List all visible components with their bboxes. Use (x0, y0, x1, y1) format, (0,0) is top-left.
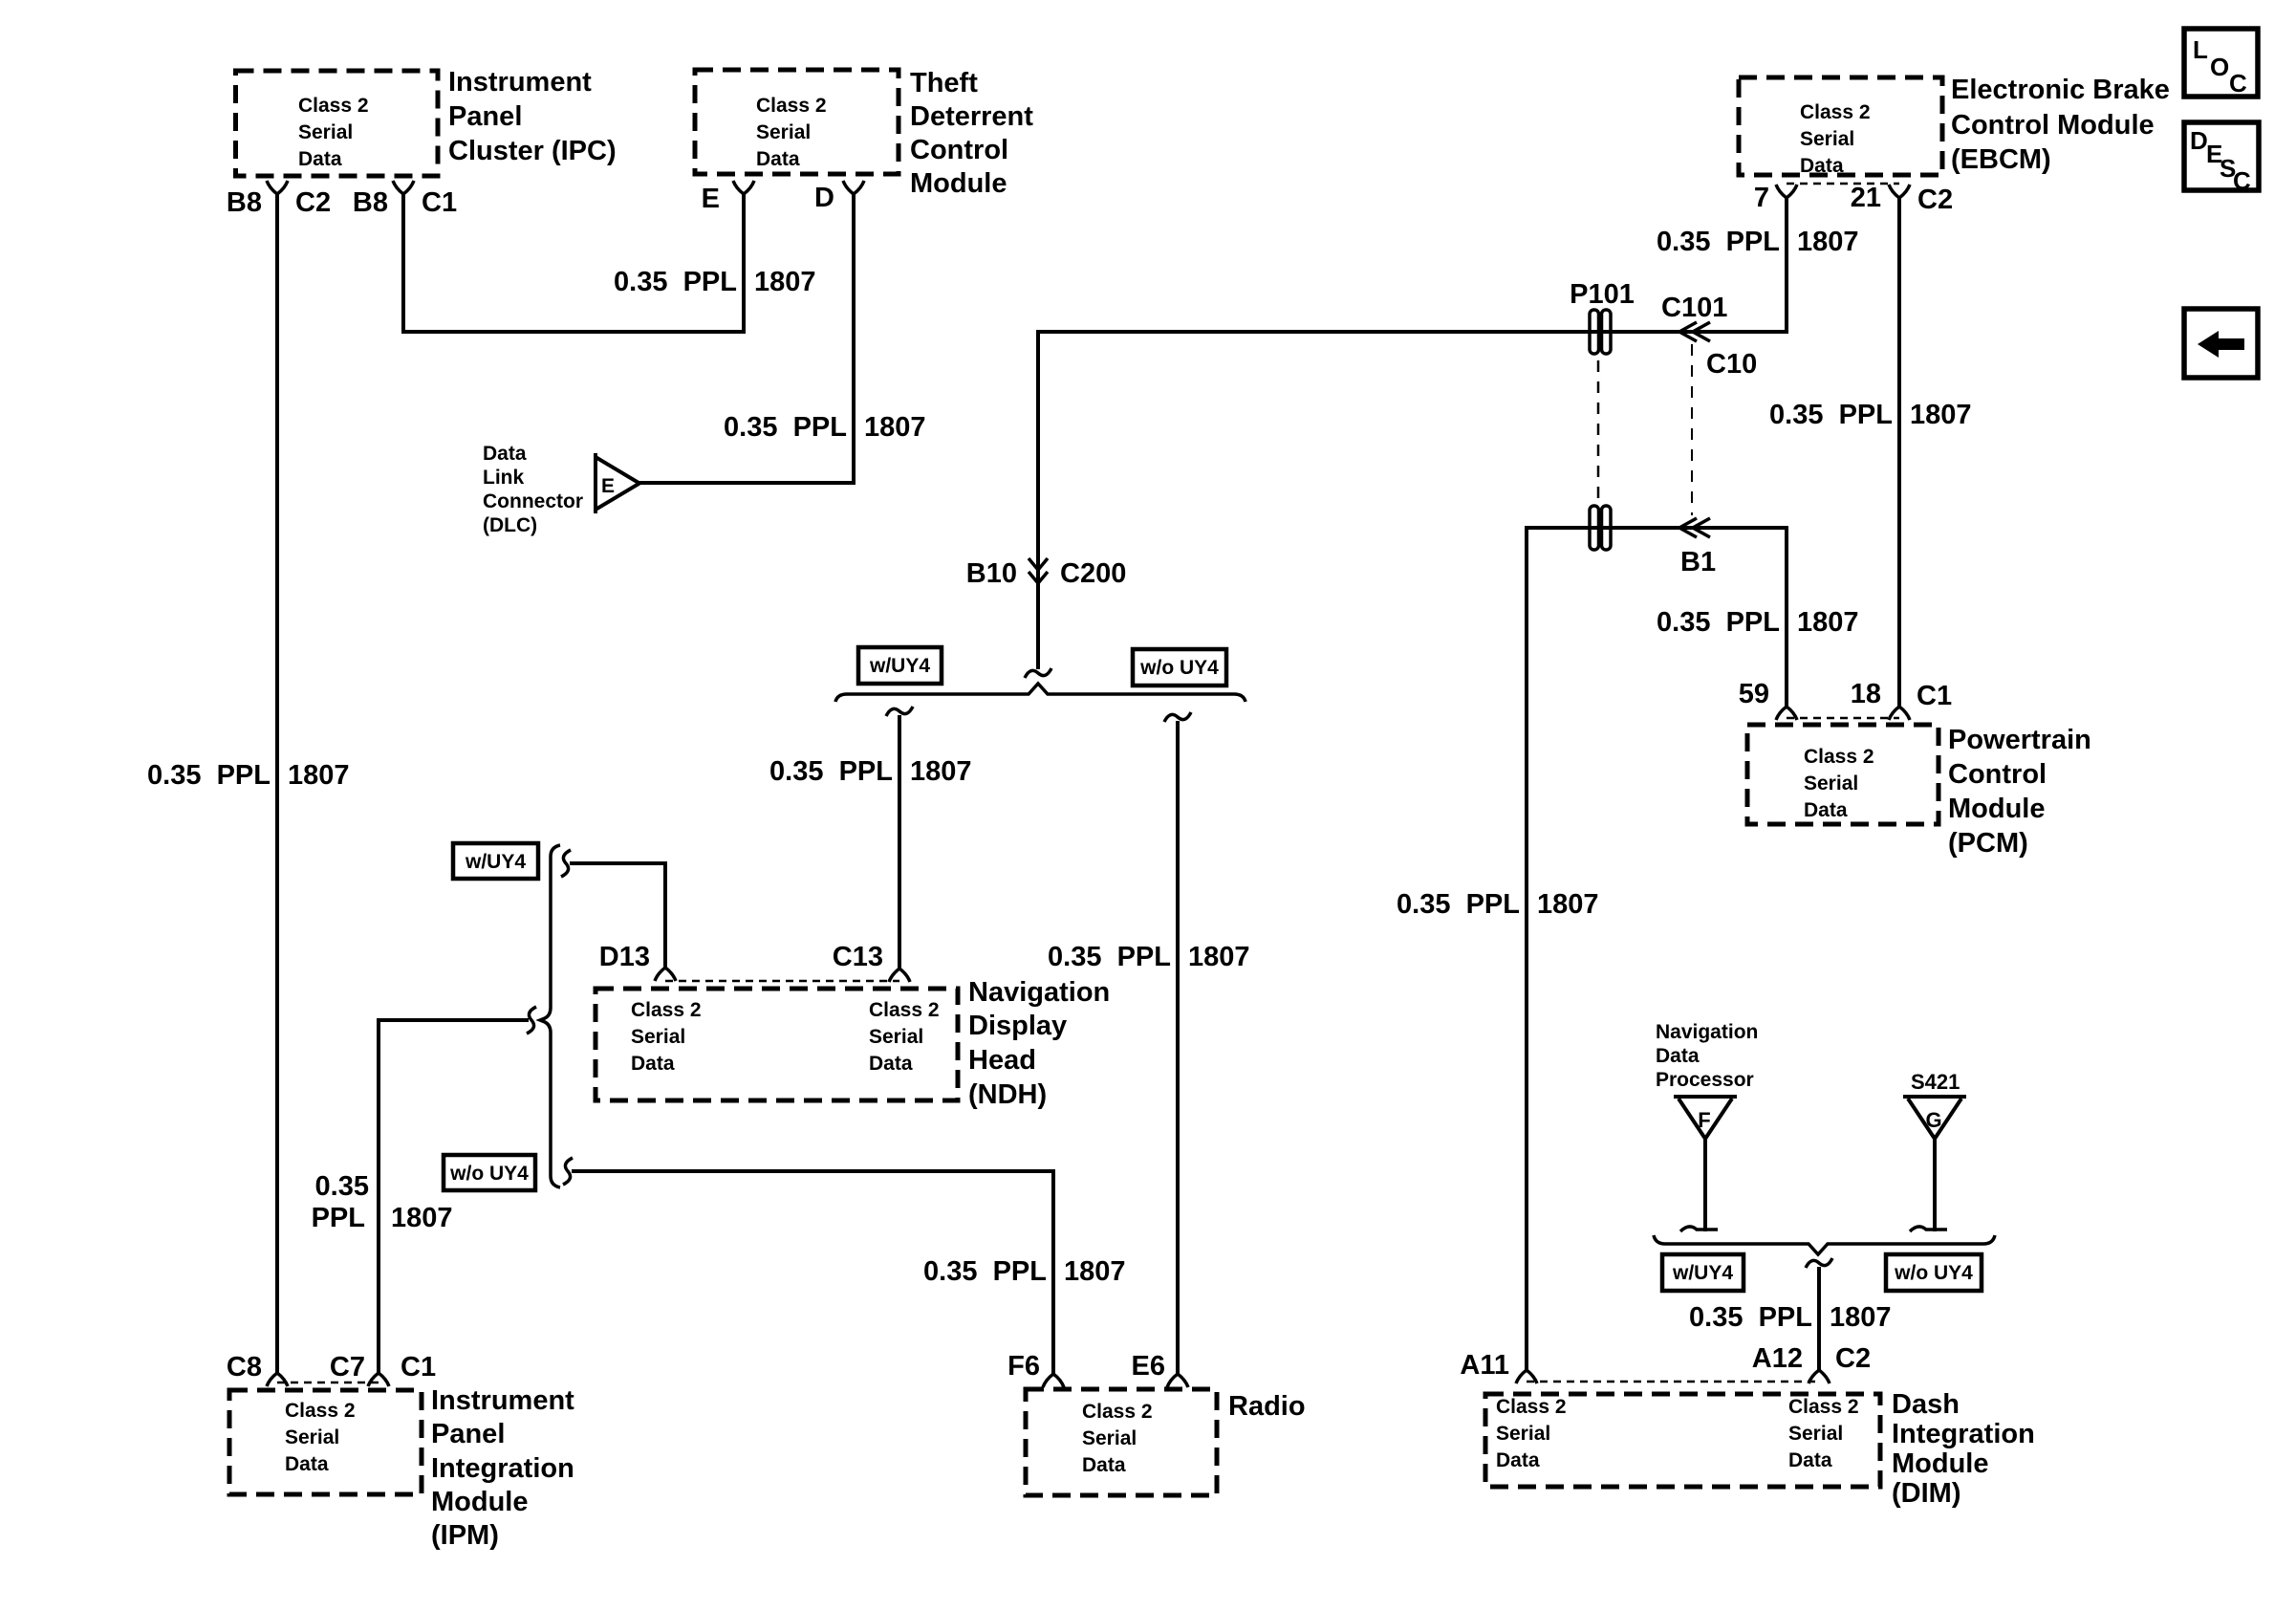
svg-text:F: F (1698, 1108, 1710, 1132)
pin D13 fork (NDH) (655, 968, 676, 981)
svg-text:Serial: Serial (285, 1426, 339, 1448)
break tilde top of w/UY4 branch (886, 707, 913, 716)
svg-text:1807: 1807 (1537, 889, 1599, 920)
svg-text:1807: 1807 (754, 267, 816, 297)
svg-text:Class 2: Class 2 (1496, 1396, 1567, 1418)
svg-text:Serial: Serial (1788, 1423, 1843, 1445)
wire triangle F stem (1703, 1139, 1707, 1231)
svg-text:Link: Link (483, 467, 524, 489)
svg-text:G: G (1925, 1108, 1941, 1132)
svg-text:PPL: PPL (312, 1203, 365, 1233)
svg-text:7: 7 (1754, 183, 1769, 213)
wire EBCM pin 21 C2 to PCM pin 18 C1 (1897, 198, 1901, 707)
break tilde top of w/o UY4 branch (1164, 712, 1191, 722)
svg-text:0.35 PPL: 0.35 PPL (1048, 942, 1171, 972)
svg-text:Class 2: Class 2 (1082, 1401, 1153, 1423)
svg-text:21: 21 (1851, 183, 1881, 213)
svg-text:18: 18 (1851, 679, 1881, 709)
svg-text:w/UY4: w/UY4 (869, 655, 930, 677)
svg-text:0.35 PPL: 0.35 PPL (147, 760, 271, 791)
svg-text:Class 2: Class 2 (1800, 101, 1871, 123)
pin C13 fork (NDH) (889, 969, 910, 982)
svg-text:B8: B8 (227, 187, 262, 218)
wire IPM C7 up to UY4 split brace (379, 1020, 529, 1373)
svg-text:Data: Data (483, 443, 527, 465)
svg-text:Navigation: Navigation (1656, 1021, 1758, 1043)
svg-text:0.35 PPL: 0.35 PPL (1769, 400, 1893, 430)
svg-text:Class 2: Class 2 (1788, 1396, 1859, 1418)
svg-text:Data: Data (298, 148, 342, 170)
EBCM connector edge dashed line (1787, 183, 1899, 185)
svg-text:C8: C8 (227, 1352, 262, 1382)
svg-text:0.35 PPL: 0.35 PPL (1657, 227, 1780, 257)
option box w/UY4 (left split) (453, 843, 538, 879)
pin A11 fork (DIM) (1516, 1370, 1537, 1383)
svg-text:B10: B10 (966, 558, 1017, 589)
pin E6 fork (Radio) (1167, 1374, 1188, 1387)
pin 7 fork (EBCM) (1776, 185, 1797, 198)
svg-text:D13: D13 (599, 942, 650, 972)
svg-text:w/UY4: w/UY4 (1672, 1262, 1733, 1284)
wire triangle G stem (1933, 1139, 1937, 1231)
svg-text:C: C (2229, 69, 2247, 98)
svg-text:A12: A12 (1752, 1343, 1803, 1374)
svg-text:C2: C2 (1835, 1343, 1871, 1374)
svg-text:w/UY4: w/UY4 (465, 851, 526, 873)
Radio internal label Class 2 Serial Data (1082, 1401, 1153, 1476)
pin B8 C1 fork (IPC) (393, 181, 414, 194)
svg-text:1807: 1807 (864, 412, 926, 443)
svg-text:Panel: Panel (448, 101, 522, 132)
svg-text:1807: 1807 (1910, 400, 1972, 430)
module Theft Deterrent Control Module box (695, 70, 899, 174)
wire w/o UY4 branch to Radio E6 (1176, 721, 1180, 1374)
svg-text:Deterrent: Deterrent (910, 101, 1033, 132)
pin C7 fork (IPM) (368, 1373, 389, 1386)
svg-text:S421: S421 (1911, 1070, 1960, 1094)
svg-text:1807: 1807 (391, 1203, 453, 1233)
wire w/o UY4 branch to Radio F6 (572, 1171, 1053, 1374)
splice break B10 double chevron down (1029, 558, 1048, 583)
module IPM box (Instrument Panel Integration Module) (229, 1390, 422, 1494)
svg-text:Class 2: Class 2 (631, 999, 702, 1021)
svg-text:Serial: Serial (1800, 128, 1854, 150)
pin E fork (Theft) (733, 181, 754, 194)
svg-text:P101: P101 (1570, 279, 1635, 310)
svg-text:C1: C1 (422, 187, 457, 218)
dashed pass-through C10 vertical (1691, 344, 1693, 515)
IPM module name (431, 1385, 574, 1551)
svg-text:Serial: Serial (631, 1026, 685, 1048)
svg-text:0.35 PPL: 0.35 PPL (724, 412, 847, 443)
DIM connector edge dashed line (1527, 1381, 1819, 1383)
svg-text:0.35 PPL: 0.35 PPL (1689, 1302, 1812, 1333)
svg-text:Data: Data (1788, 1449, 1832, 1471)
svg-text:w/o UY4: w/o UY4 (1894, 1262, 1973, 1284)
svg-text:1807: 1807 (910, 756, 972, 787)
svg-text:C: C (2233, 166, 2251, 195)
svg-text:Instrument: Instrument (431, 1385, 574, 1416)
svg-text:Data: Data (285, 1453, 329, 1475)
DLC connector triangle E (596, 457, 639, 510)
svg-text:Control Module: Control Module (1951, 110, 2155, 141)
svg-text:E: E (702, 184, 720, 214)
svg-text:Module: Module (1892, 1448, 1989, 1479)
svg-text:Dash: Dash (1892, 1389, 1960, 1420)
svg-text:B1: B1 (1680, 547, 1716, 577)
DIM internal label Class 2 Serial Data (left) (1496, 1396, 1567, 1471)
option box w/UY4 (C200 split) (858, 647, 942, 684)
EBCM module name (1951, 75, 2170, 175)
svg-text:Serial: Serial (298, 121, 353, 143)
NDH connector edge dashed line (665, 980, 899, 983)
pin D fork (Theft) (843, 181, 864, 194)
C200 split brace (835, 684, 1245, 702)
wire w/UY4 branch to NDH C13 (898, 715, 901, 969)
svg-text:(DLC): (DLC) (483, 514, 537, 536)
svg-text:Processor: Processor (1656, 1069, 1754, 1091)
svg-text:Radio: Radio (1228, 1391, 1306, 1422)
svg-text:0.35 PPL: 0.35 PPL (923, 1256, 1047, 1287)
break tilde end of IPM C7 wire (527, 1007, 536, 1034)
svg-text:0.35: 0.35 (315, 1171, 369, 1202)
svg-text:Class 2: Class 2 (285, 1400, 356, 1422)
svg-text:Class 2: Class 2 (1804, 746, 1874, 768)
inline connector B1 double chevron (1679, 518, 1710, 537)
dashed pass-through P101 vertical (1597, 360, 1600, 504)
svg-text:Data: Data (631, 1053, 675, 1075)
NDH module name (968, 977, 1110, 1110)
svg-text:Data: Data (1800, 155, 1844, 177)
svg-text:C1: C1 (1917, 681, 1952, 711)
legend LOC box (2184, 29, 2258, 98)
svg-text:Panel: Panel (431, 1419, 505, 1449)
svg-text:Serial: Serial (756, 121, 811, 143)
wire PCM pin 59 via B1 to DIM A11 (1527, 528, 1787, 1370)
wire Theft pin D to DLC (639, 194, 854, 483)
left UY4 split curly brace (540, 845, 560, 1187)
break tilde above C200 brace (1025, 668, 1051, 678)
svg-text:Electronic Brake: Electronic Brake (1951, 75, 2170, 105)
module IPC box (Instrument Panel Cluster) (236, 71, 439, 176)
svg-text:C2: C2 (1917, 185, 1953, 215)
PCM connector edge dashed line (1787, 717, 1899, 720)
svg-text:B8: B8 (353, 187, 388, 218)
Theft module name (910, 68, 1033, 199)
IPM connector edge dashed line (277, 1382, 379, 1384)
svg-text:Connector: Connector (483, 490, 583, 512)
svg-text:Module: Module (910, 168, 1007, 199)
foot at G stem (1910, 1227, 1947, 1231)
svg-text:0.35 PPL: 0.35 PPL (769, 756, 893, 787)
svg-text:D: D (2190, 126, 2208, 155)
svg-text:1807: 1807 (288, 760, 350, 791)
svg-text:Data: Data (1496, 1449, 1540, 1471)
svg-text:Data: Data (1804, 799, 1848, 821)
svg-text:Module: Module (431, 1487, 529, 1517)
break tilde below DIM brace (1806, 1258, 1832, 1268)
NDH internal label Class 2 Serial Data (right) (869, 999, 940, 1075)
pin C8 fork (IPM) (267, 1373, 288, 1386)
PCM internal label Class 2 Serial Data (1804, 746, 1874, 821)
svg-text:D: D (814, 183, 834, 213)
svg-text:Serial: Serial (1496, 1423, 1550, 1445)
wire DIM A12 drop (1817, 1267, 1821, 1370)
svg-text:Integration: Integration (431, 1453, 574, 1484)
DIM split brace (1654, 1235, 1995, 1254)
svg-text:1807: 1807 (1797, 607, 1859, 638)
svg-text:E: E (601, 475, 615, 497)
pin 59 fork (PCM) (1776, 707, 1797, 720)
splice S421 triangle G (1903, 1097, 1966, 1139)
svg-text:w/o UY4: w/o UY4 (1139, 657, 1219, 679)
svg-text:0.35 PPL: 0.35 PPL (614, 267, 737, 297)
svg-text:L: L (2193, 35, 2208, 64)
wire label 0.35 / PPL / 1807 (IPM C7) (312, 1171, 453, 1233)
svg-text:C200: C200 (1060, 558, 1126, 589)
foot at F stem (1680, 1227, 1718, 1231)
svg-text:(EBCM): (EBCM) (1951, 144, 2051, 175)
svg-text:C101: C101 (1661, 293, 1727, 323)
pin B8 C2 fork (IPC) (267, 181, 288, 194)
wire w/UY4 branch to NDH D13 (570, 863, 665, 968)
PCM module name (1948, 725, 2091, 859)
svg-text:1807: 1807 (1188, 942, 1250, 972)
svg-text:C2: C2 (295, 187, 331, 218)
module NDH box (Navigation Display Head) (596, 989, 958, 1100)
svg-text:Display: Display (968, 1011, 1067, 1041)
inline connector P101 grommet (upper) (1590, 310, 1611, 354)
svg-text:F6: F6 (1007, 1351, 1040, 1382)
svg-text:(NDH): (NDH) (968, 1079, 1047, 1110)
svg-text:1807: 1807 (1830, 1302, 1892, 1333)
svg-text:(DIM): (DIM) (1892, 1478, 1960, 1509)
pin 18 fork (PCM C1) (1889, 707, 1910, 720)
inline connector C101 double chevron (1679, 322, 1710, 341)
svg-text:A11: A11 (1460, 1350, 1509, 1381)
IPC internal label Class 2 Serial Data (298, 95, 369, 170)
break tilde start of w/UY4 branch wire (561, 850, 571, 877)
svg-text:E6: E6 (1132, 1351, 1165, 1382)
wire IPC C1-B8 to Theft pin E (403, 194, 744, 332)
svg-text:C1: C1 (401, 1352, 436, 1382)
svg-text:w/o UY4: w/o UY4 (449, 1163, 529, 1185)
DIM module name (1892, 1389, 2035, 1509)
svg-text:Data: Data (1082, 1454, 1126, 1476)
pin A12 fork (DIM C2) (1809, 1370, 1830, 1383)
svg-text:Integration: Integration (1892, 1419, 2035, 1449)
svg-text:Module: Module (1948, 794, 2046, 824)
svg-text:1807: 1807 (1797, 227, 1859, 257)
break tilde start of w/o UY4 branch wire (563, 1158, 573, 1185)
legend DESC box (2184, 122, 2259, 195)
IPM internal label Class 2 Serial Data (285, 1400, 356, 1475)
wire IPC C2-B8 to IPM C8 (long left vertical) (275, 194, 279, 1373)
svg-text:Class 2: Class 2 (869, 999, 940, 1021)
Navigation Data Processor label (1656, 1021, 1758, 1091)
pin 21 fork (EBCM C2) (1889, 185, 1910, 198)
svg-text:Theft: Theft (910, 68, 978, 98)
Navigation Data Processor triangle F (1674, 1097, 1737, 1139)
svg-text:Data: Data (1656, 1045, 1700, 1067)
svg-text:Instrument: Instrument (448, 67, 592, 98)
svg-text:(IPM): (IPM) (431, 1520, 499, 1551)
svg-text:0.35 PPL: 0.35 PPL (1397, 889, 1520, 920)
pin F6 fork (Radio) (1043, 1374, 1064, 1387)
module EBCM box (Electronic Brake Control Module) (1739, 77, 1942, 175)
svg-text:C7: C7 (330, 1352, 365, 1382)
NDH internal label Class 2 Serial Data (left) (631, 999, 702, 1075)
option box w/o UY4 (DIM split) (1886, 1254, 1982, 1291)
svg-text:Cluster (IPC): Cluster (IPC) (448, 136, 617, 166)
svg-text:Class 2: Class 2 (756, 95, 827, 117)
svg-text:1807: 1807 (1064, 1256, 1126, 1287)
DIM internal label Class 2 Serial Data (right) (1788, 1396, 1859, 1471)
svg-text:(PCM): (PCM) (1948, 828, 2028, 859)
svg-text:59: 59 (1739, 679, 1769, 709)
EBCM internal label Class 2 Serial Data (1800, 101, 1871, 177)
svg-text:Class 2: Class 2 (298, 95, 369, 117)
wire EBCM pin 7 to C101 to C200 drop (1038, 198, 1787, 669)
svg-text:Control: Control (910, 135, 1008, 165)
module PCM box (Powertrain Control Module) (1747, 725, 1939, 824)
svg-text:Data: Data (756, 148, 800, 170)
svg-text:0.35 PPL: 0.35 PPL (1657, 607, 1780, 638)
module DIM box (Dash Integration Module) (1485, 1394, 1880, 1487)
option box w/UY4 (DIM split) (1662, 1254, 1744, 1291)
svg-text:Control: Control (1948, 759, 2047, 790)
svg-text:Serial: Serial (1082, 1427, 1137, 1449)
option box w/o UY4 (C200 split) (1133, 649, 1226, 686)
module Radio box (1026, 1389, 1217, 1495)
svg-text:Serial: Serial (869, 1026, 923, 1048)
inline connector P101 grommet (lower) (1590, 506, 1611, 550)
svg-text:Navigation: Navigation (968, 977, 1110, 1008)
IPC module name (448, 67, 617, 166)
DLC label Data Link Connector (DLC) (483, 443, 583, 536)
svg-text:Powertrain: Powertrain (1948, 725, 2091, 755)
svg-text:Serial: Serial (1804, 773, 1858, 795)
svg-text:Head: Head (968, 1045, 1036, 1076)
svg-text:C10: C10 (1706, 349, 1757, 380)
option box w/o UY4 (left split) (444, 1155, 535, 1190)
svg-text:Data: Data (869, 1053, 913, 1075)
svg-text:C13: C13 (833, 942, 883, 972)
Theft internal label Class 2 Serial Data (756, 95, 827, 170)
legend back-arrow box (2184, 309, 2258, 378)
svg-text:O: O (2210, 53, 2229, 81)
